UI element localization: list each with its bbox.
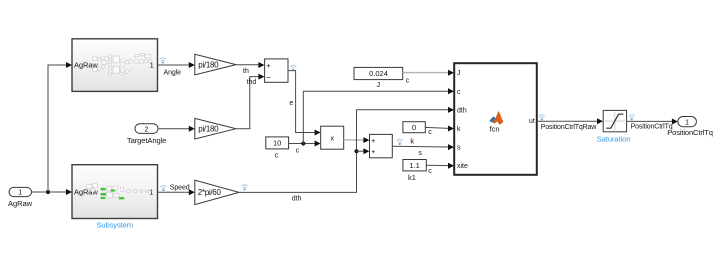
svg-text:e: e <box>289 100 293 107</box>
svg-text:k: k <box>457 126 461 133</box>
svg-text:xite: xite <box>457 163 468 170</box>
svg-text:TargetAngle: TargetAngle <box>127 136 166 145</box>
svg-text:thd: thd <box>247 79 257 86</box>
logging badge dth <box>242 185 248 191</box>
constant c (10) <box>266 137 289 160</box>
saturation block Saturation <box>597 110 631 143</box>
svg-text:+: + <box>371 147 376 156</box>
svg-text:0: 0 <box>412 123 416 132</box>
wire k1(1.1) to fcn input xite, signal c <box>426 163 454 175</box>
subsystem1 preview sketch <box>93 53 152 75</box>
wire Subsystem1 to Gain1, signal Angle <box>158 62 195 77</box>
wire Gain2 to Sum1 minus, signal thd <box>236 74 264 129</box>
svg-text:J: J <box>457 70 461 77</box>
svg-text:J: J <box>376 80 380 89</box>
svg-text:c: c <box>428 168 432 175</box>
logging badge PositionCtrlTq <box>629 115 635 121</box>
svg-text:th: th <box>243 68 249 75</box>
wire Gain1 to Sum1, signal th <box>236 62 264 75</box>
constant k (0) <box>403 122 425 146</box>
svg-text:+: + <box>266 61 271 70</box>
svg-text:2: 2 <box>145 126 149 133</box>
wire Sum2 to fcn input s, signal s <box>392 144 454 157</box>
gain Gain1 pi/180 <box>195 54 236 75</box>
node junction dth branch <box>354 149 358 153</box>
svg-text:k: k <box>410 136 414 145</box>
logging badge ut <box>539 115 545 121</box>
svg-text:k1: k1 <box>408 173 416 182</box>
inport 1 AgRaw <box>8 187 33 208</box>
svg-text:Angle: Angle <box>164 70 182 77</box>
gain Gain2 pi/180 <box>195 118 236 139</box>
sum Sum2 (+ +) <box>370 134 393 157</box>
svg-text:2*pi/60: 2*pi/60 <box>198 188 222 197</box>
svg-text:pi/180: pi/180 <box>198 60 219 69</box>
svg-text:1: 1 <box>685 119 689 126</box>
wire Subsystem2 to Gain3, signal Speed <box>158 185 195 196</box>
svg-text:dth: dth <box>457 107 467 114</box>
svg-text:+: + <box>371 136 376 145</box>
svg-text:fcn: fcn <box>490 125 500 134</box>
svg-text:c: c <box>275 151 279 160</box>
constant J (0.024) <box>354 67 403 88</box>
svg-text:1: 1 <box>18 190 22 197</box>
wire AgRaw branch up to Subsystem1 <box>48 62 72 192</box>
logging badge e <box>290 65 296 71</box>
subsystem Subsystem (Speed) <box>72 165 158 230</box>
wire k(0) to fcn input k, signal c <box>425 126 454 136</box>
svg-text:1: 1 <box>149 188 153 197</box>
logging badge s <box>397 139 403 145</box>
svg-text:c: c <box>296 147 300 154</box>
svg-text:10: 10 <box>273 139 281 148</box>
wire AgRaw to branch and Subsystem2 <box>32 189 73 195</box>
wire TargetAngle to Gain2 <box>158 126 195 132</box>
subsystem2 preview sketch <box>87 183 153 199</box>
svg-text:−: − <box>266 73 271 82</box>
svg-text:s: s <box>457 145 461 152</box>
svg-text:c: c <box>428 129 432 136</box>
wire Gain3 to dth riser, signal dth <box>239 107 454 202</box>
wire c branch up to fcn input c <box>303 88 454 143</box>
svg-text:Saturation: Saturation <box>597 135 631 144</box>
svg-text:1.1: 1.1 <box>409 161 419 170</box>
sum Sum1 (+ -) <box>265 59 288 82</box>
gain Gain3 2*pi/60 <box>195 180 239 204</box>
svg-text:PositionCtrlTq: PositionCtrlTq <box>667 128 713 137</box>
svg-text:pi/180: pi/180 <box>198 125 219 134</box>
svg-text:Speed: Speed <box>170 185 190 192</box>
MATLAB function block fcn <box>454 63 537 175</box>
svg-text:c: c <box>457 89 461 96</box>
wire dth branch to Sum2 lower input <box>357 148 370 154</box>
logging badge Speed <box>160 185 166 191</box>
product block x <box>321 126 344 149</box>
svg-text:x: x <box>330 134 334 143</box>
logging badge Angle <box>160 58 166 64</box>
svg-text:PositionCtrlTqRaw: PositionCtrlTqRaw <box>541 124 598 131</box>
outport 1 PositionCtrlTq <box>667 117 713 138</box>
wire J(0.024) to fcn input J (gray), signal c <box>403 70 454 85</box>
svg-text:c: c <box>406 77 410 84</box>
inport 2 TargetAngle <box>127 124 166 145</box>
wire Saturation to outport, signal PositionCtrlTq <box>627 119 678 131</box>
svg-text:s: s <box>418 150 422 157</box>
wire Sum1 to Product top, signal e <box>288 71 321 136</box>
node junction AgRaw branch <box>46 190 50 194</box>
constant k1 (1.1) <box>403 160 426 183</box>
svg-text:ut: ut <box>529 118 535 125</box>
svg-text:dth: dth <box>292 195 302 202</box>
svg-text:0.024: 0.024 <box>369 69 388 78</box>
wire c(10) to Product bottom, signal c <box>289 141 321 155</box>
MATLAB logo <box>490 111 504 125</box>
svg-text:Subsystem: Subsystem <box>96 221 133 230</box>
wire fcn to Saturation, signal PositionCtrlTqRaw <box>537 118 603 131</box>
svg-text:AgRaw: AgRaw <box>8 199 33 208</box>
subsystem Subsystem1 (Angle) <box>72 39 158 92</box>
wire Product to Sum2 (gray) <box>344 137 370 143</box>
node junction c branch <box>301 141 305 145</box>
